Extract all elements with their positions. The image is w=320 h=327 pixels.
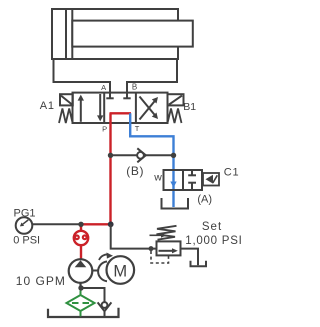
svg-text:(A): (A) (197, 194, 212, 206)
svg-text:B: B (132, 82, 137, 91)
svg-text:0 PSI: 0 PSI (13, 234, 40, 246)
svg-text:T: T (135, 124, 140, 133)
svg-text:PG1: PG1 (14, 208, 36, 220)
svg-text:P: P (102, 124, 107, 133)
svg-text:10 GPM: 10 GPM (16, 274, 66, 288)
svg-text:(B): (B) (126, 164, 144, 178)
svg-text:1,000 PSI: 1,000 PSI (185, 235, 242, 247)
svg-text:B1: B1 (183, 101, 196, 113)
svg-text:Set: Set (202, 221, 222, 233)
svg-text:M: M (113, 262, 127, 280)
svg-text:A: A (101, 83, 106, 92)
svg-text:A1: A1 (40, 100, 55, 112)
svg-text:C1: C1 (224, 167, 240, 179)
svg-text:w: w (153, 172, 162, 184)
